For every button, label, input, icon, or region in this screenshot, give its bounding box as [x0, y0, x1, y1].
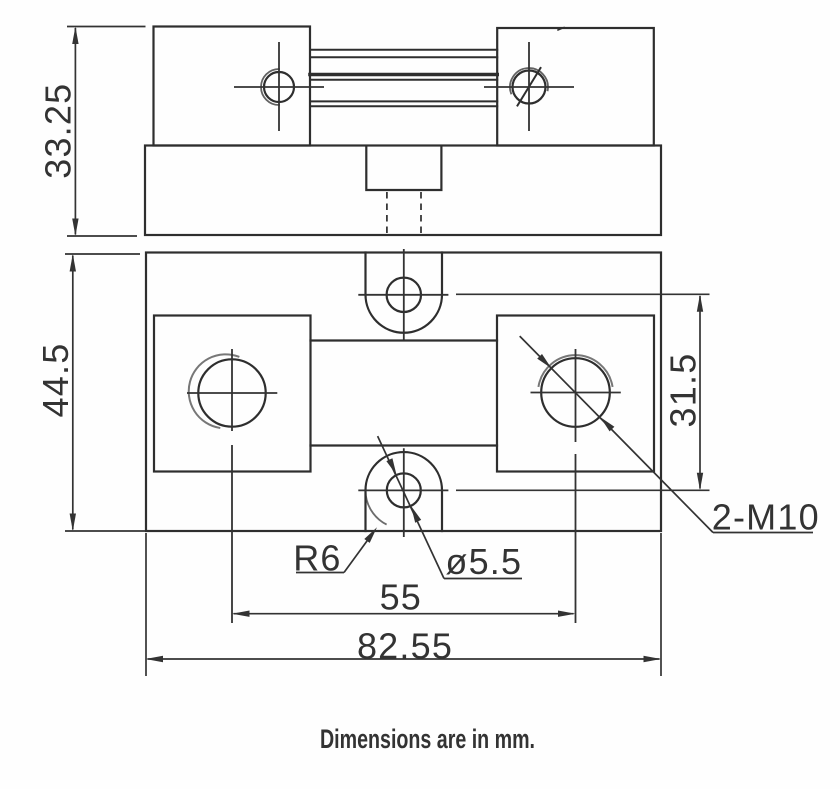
bottom tab centerlines — [403, 448, 405, 537]
svg-text:44.5: 44.5 — [35, 343, 76, 418]
top view: right bolt circle — [513, 71, 546, 104]
top view: bolt centerlines — [234, 42, 574, 131]
svg-text:ø5.5: ø5.5 — [445, 541, 522, 582]
bottom view: lower connecting edge — [311, 444, 498, 446]
dimension 44.5 — [65, 254, 145, 531]
bottom view: right terminal pad — [497, 316, 654, 472]
bottom view: upper connecting edge — [311, 339, 498, 341]
bottom view: bottom mounting tab — [366, 452, 443, 531]
top view: hidden dashed lines under tab — [387, 192, 421, 234]
bottom view: top tab hole (5.5) — [387, 278, 421, 312]
R6 arrowhead — [364, 527, 377, 543]
svg-text:33.25: 33.25 — [37, 83, 78, 179]
top view: base plate — [145, 146, 661, 236]
dimension 82.55 — [146, 533, 661, 676]
dimension 55 — [234, 613, 574, 615]
bottom view: outer plate rectangle — [146, 253, 661, 532]
bottom view: right hole sketch ring — [539, 355, 613, 386]
svg-text:55: 55 — [380, 577, 422, 618]
leader R6 — [296, 533, 373, 573]
top tab centerlines — [403, 249, 405, 340]
top view: resistance element strips — [310, 50, 497, 106]
top view: left terminal block — [154, 27, 311, 146]
top view: blemish tick on right block top edge — [558, 28, 564, 31]
bottom view: right M10 hole circle — [541, 358, 610, 427]
right hole centerlines — [531, 392, 621, 394]
svg-text:31.5: 31.5 — [663, 353, 704, 428]
bottom view: left M10 hole circle — [198, 359, 265, 426]
bottom view: bottom tab arc sketch overshoot — [366, 490, 386, 524]
leader 2-M10 — [520, 336, 813, 532]
bottom view: bottom tab hole (5.5) — [387, 473, 421, 507]
svg-text:2-M10: 2-M10 — [712, 497, 820, 538]
top view: center recess tab — [366, 147, 441, 191]
top view: left bolt circle — [264, 72, 294, 102]
bottom view: left terminal pad — [154, 316, 311, 472]
top view: left bolt sketch ring — [261, 69, 279, 105]
svg-text:82.55: 82.55 — [357, 626, 453, 667]
bottom view: top mounting tab — [366, 253, 443, 333]
svg-text:R6: R6 — [293, 538, 341, 579]
top view: right bolt slash — [518, 68, 541, 106]
dimension 33.25 — [67, 27, 146, 237]
dia5.5 arrowheads — [386, 458, 396, 475]
top view: right bolt sketch ring — [510, 68, 548, 93]
left hole centerlines — [187, 392, 277, 394]
bottom view: left hole sketch ring — [189, 354, 239, 427]
2-M10 arrowheads — [537, 354, 551, 368]
dimension 31.5 — [456, 294, 710, 490]
svg-text:Dimensions are in mm.: Dimensions are in mm. — [320, 724, 535, 754]
bottom view: centerlines — [187, 249, 621, 623]
top view: right terminal block — [497, 28, 654, 146]
leader dia 5.5 — [378, 436, 522, 578]
